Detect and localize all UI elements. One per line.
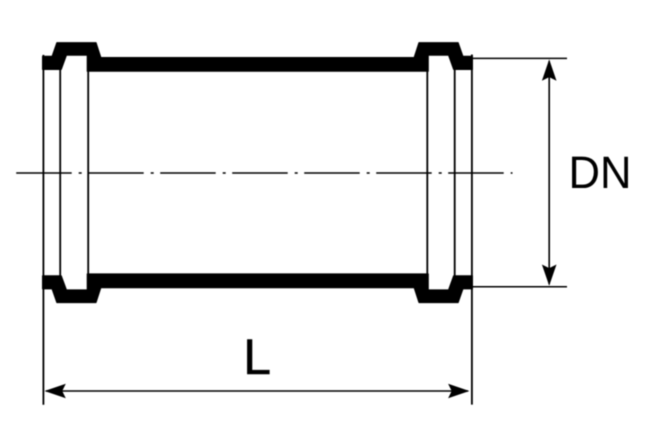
centerline (dash-dot axis) — [16, 172, 512, 174]
left seal groove inner edge line — [87, 56, 89, 289]
right socket mouth inner-diameter line — [454, 70, 456, 276]
svg-text:DN: DN — [569, 147, 632, 198]
L dimension line — [46, 390, 468, 392]
left socket mouth outer edge + L extension line — [42, 55, 44, 405]
DN extension line top — [464, 57, 567, 59]
DN arrowhead up — [542, 59, 557, 80]
L arrowhead left — [45, 384, 66, 399]
right socket mouth outer edge + L extension line — [471, 55, 473, 405]
svg-text:L: L — [243, 329, 271, 385]
coupling body: bottom wall cross-section with sealing-ring ridges — [43, 274, 473, 303]
coupling body: top wall cross-section with sealing-ring ridges — [43, 43, 473, 71]
DN dimension line — [548, 61, 550, 284]
L arrowhead right — [448, 384, 469, 399]
right seal groove inner edge line — [426, 56, 428, 289]
DN arrowhead down — [542, 265, 557, 286]
left socket mouth inner-diameter line — [59, 70, 61, 276]
DN extension line bottom — [464, 286, 567, 288]
